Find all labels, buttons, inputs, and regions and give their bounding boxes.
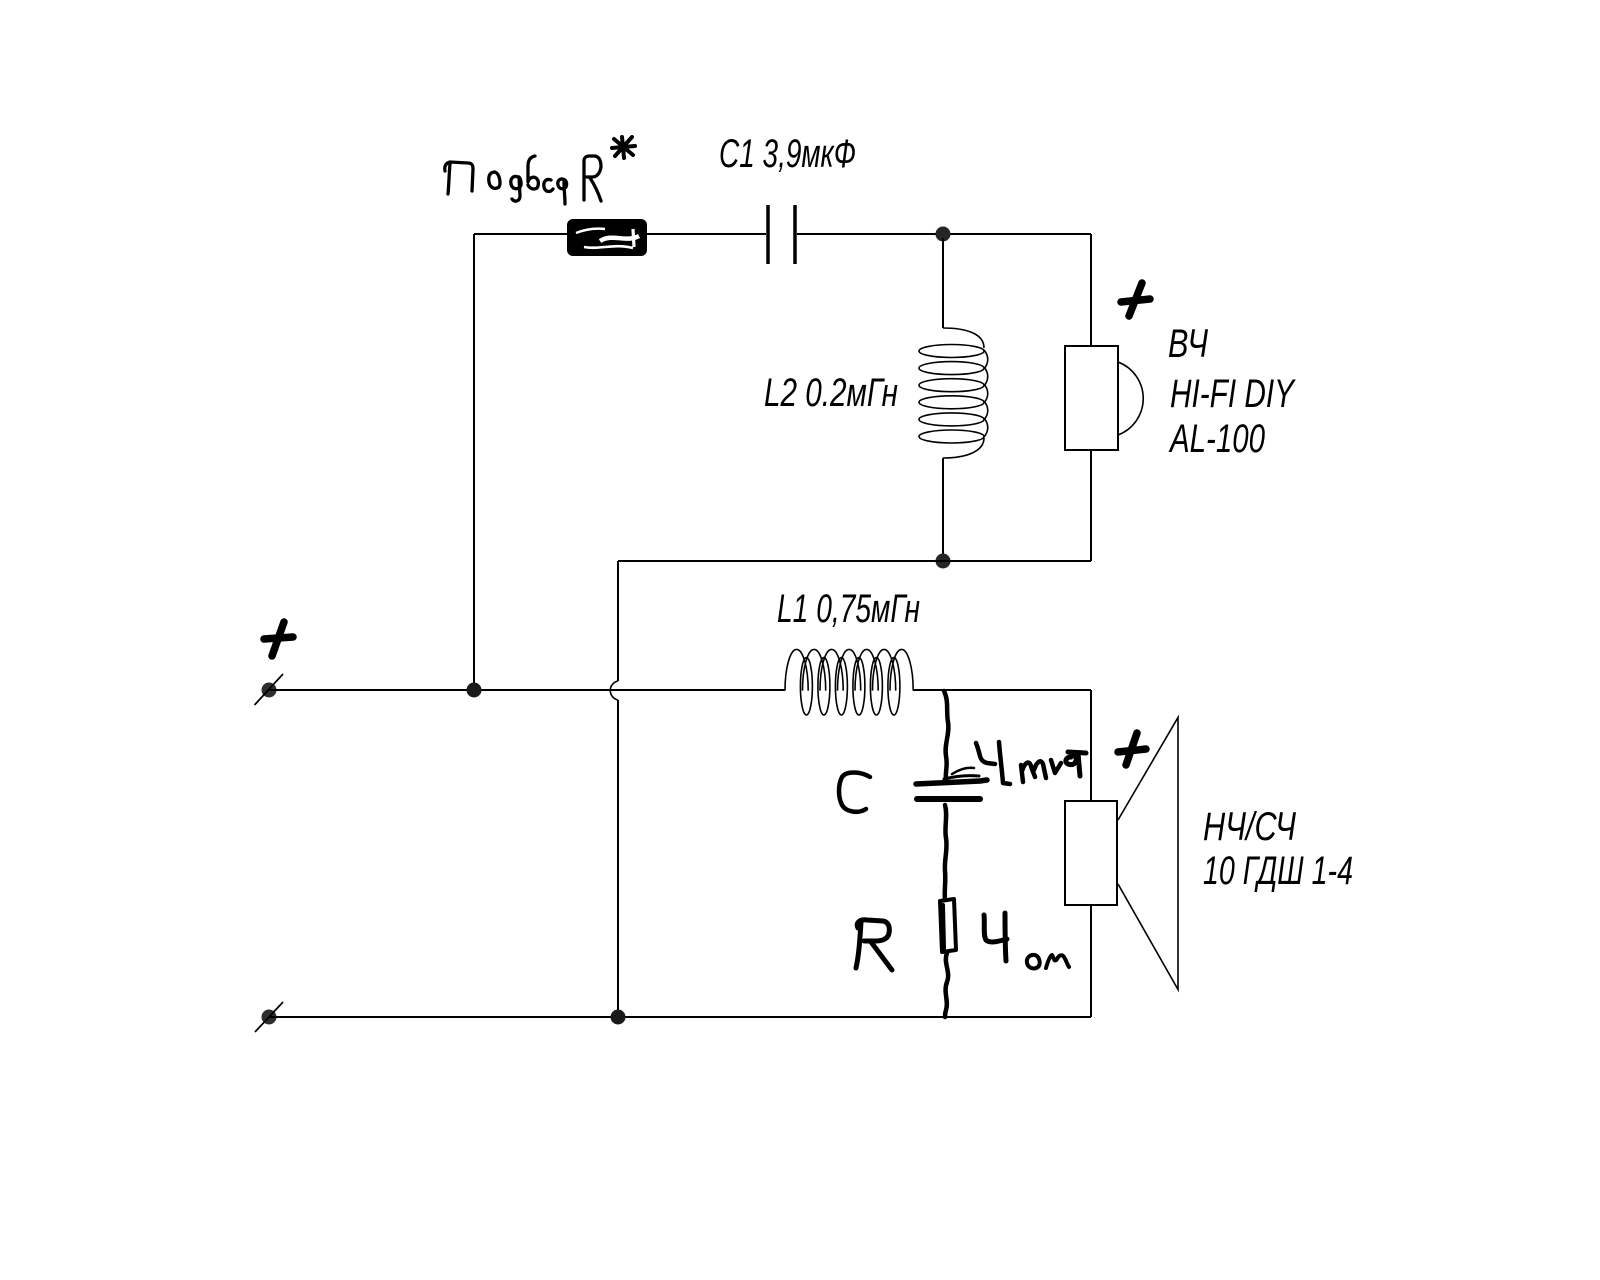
label R (handwritten) <box>856 920 892 970</box>
woofer plus <box>1118 733 1146 765</box>
hand-drawn wire squiggle lower <box>945 953 948 1017</box>
wire L2 branch vertical <box>942 238 944 556</box>
svg-text:10 ГДШ 1-4: 10 ГДШ 1-4 <box>1203 849 1353 893</box>
capacitor C bottom plate <box>917 796 980 802</box>
node B <box>936 554 951 569</box>
input terminal bottom <box>262 1010 277 1025</box>
wire from L1 to right vertical <box>913 689 1091 691</box>
wire vertical x=618 with hop over input wire <box>617 561 619 1017</box>
svg-text:AL-100: AL-100 <box>1169 417 1265 461</box>
svg-text:НЧ/СЧ: НЧ/СЧ <box>1203 805 1296 849</box>
woofer speaker НЧ/СЧ rect <box>1065 801 1117 905</box>
junction dot x=618 bottom <box>611 1010 626 1025</box>
junction dot x=474 <box>467 683 482 698</box>
label C (handwritten) <box>839 773 870 812</box>
wire left vertical x=474 down to junction <box>473 234 475 690</box>
wire bottom horizontal y=1017 <box>269 1016 1091 1018</box>
wire top horizontal from left corner to C1 left plate <box>474 233 766 235</box>
svg-text:ВЧ: ВЧ <box>1168 322 1208 366</box>
input plus (handwritten) <box>264 622 293 656</box>
tweeter dome <box>1118 362 1143 435</box>
inductor L2 (vertical coil) <box>919 328 988 458</box>
woofer cone <box>1118 718 1178 990</box>
wire input top horizontal y=690 <box>269 689 785 691</box>
label 4мкф (handwritten) <box>976 742 1086 784</box>
hop arc <box>610 681 618 700</box>
node A <box>936 227 951 242</box>
capacitor C1 plates <box>768 205 795 264</box>
wire mid horizontal y=561 <box>618 560 1091 562</box>
svg-text:C1 3,9мкФ: C1 3,9мкФ <box>719 132 856 176</box>
tweeter plus <box>1121 283 1150 316</box>
wire right vertical x=1091 lower <box>1090 690 1092 1017</box>
label Подбор R* (handwritten) <box>445 137 635 204</box>
resistor R (hand-drawn rectangle) <box>940 899 956 952</box>
wire right vertical x=1091 upper <box>1090 234 1092 561</box>
svg-text:L2 0.2мГн: L2 0.2мГн <box>764 371 898 415</box>
capacitor C (hand-drawn) top plate <box>916 780 987 784</box>
hand-drawn wire squiggle upper <box>944 691 948 779</box>
svg-text:HI-FI DIY: HI-FI DIY <box>1170 372 1296 416</box>
tweeter speaker BЧ rect <box>1065 346 1118 450</box>
input terminal top <box>262 683 277 698</box>
label 4 ом (handwritten) <box>984 913 1069 968</box>
wire from C1 right plate to node A <box>797 233 1091 235</box>
svg-text:L1 0,75мГн: L1 0,75мГн <box>777 587 920 631</box>
hand-drawn wire squiggle middle <box>945 805 947 900</box>
resistor R (hand-drawn scribble block) <box>571 223 643 252</box>
inductor L1 (horizontal coil) <box>785 649 913 715</box>
